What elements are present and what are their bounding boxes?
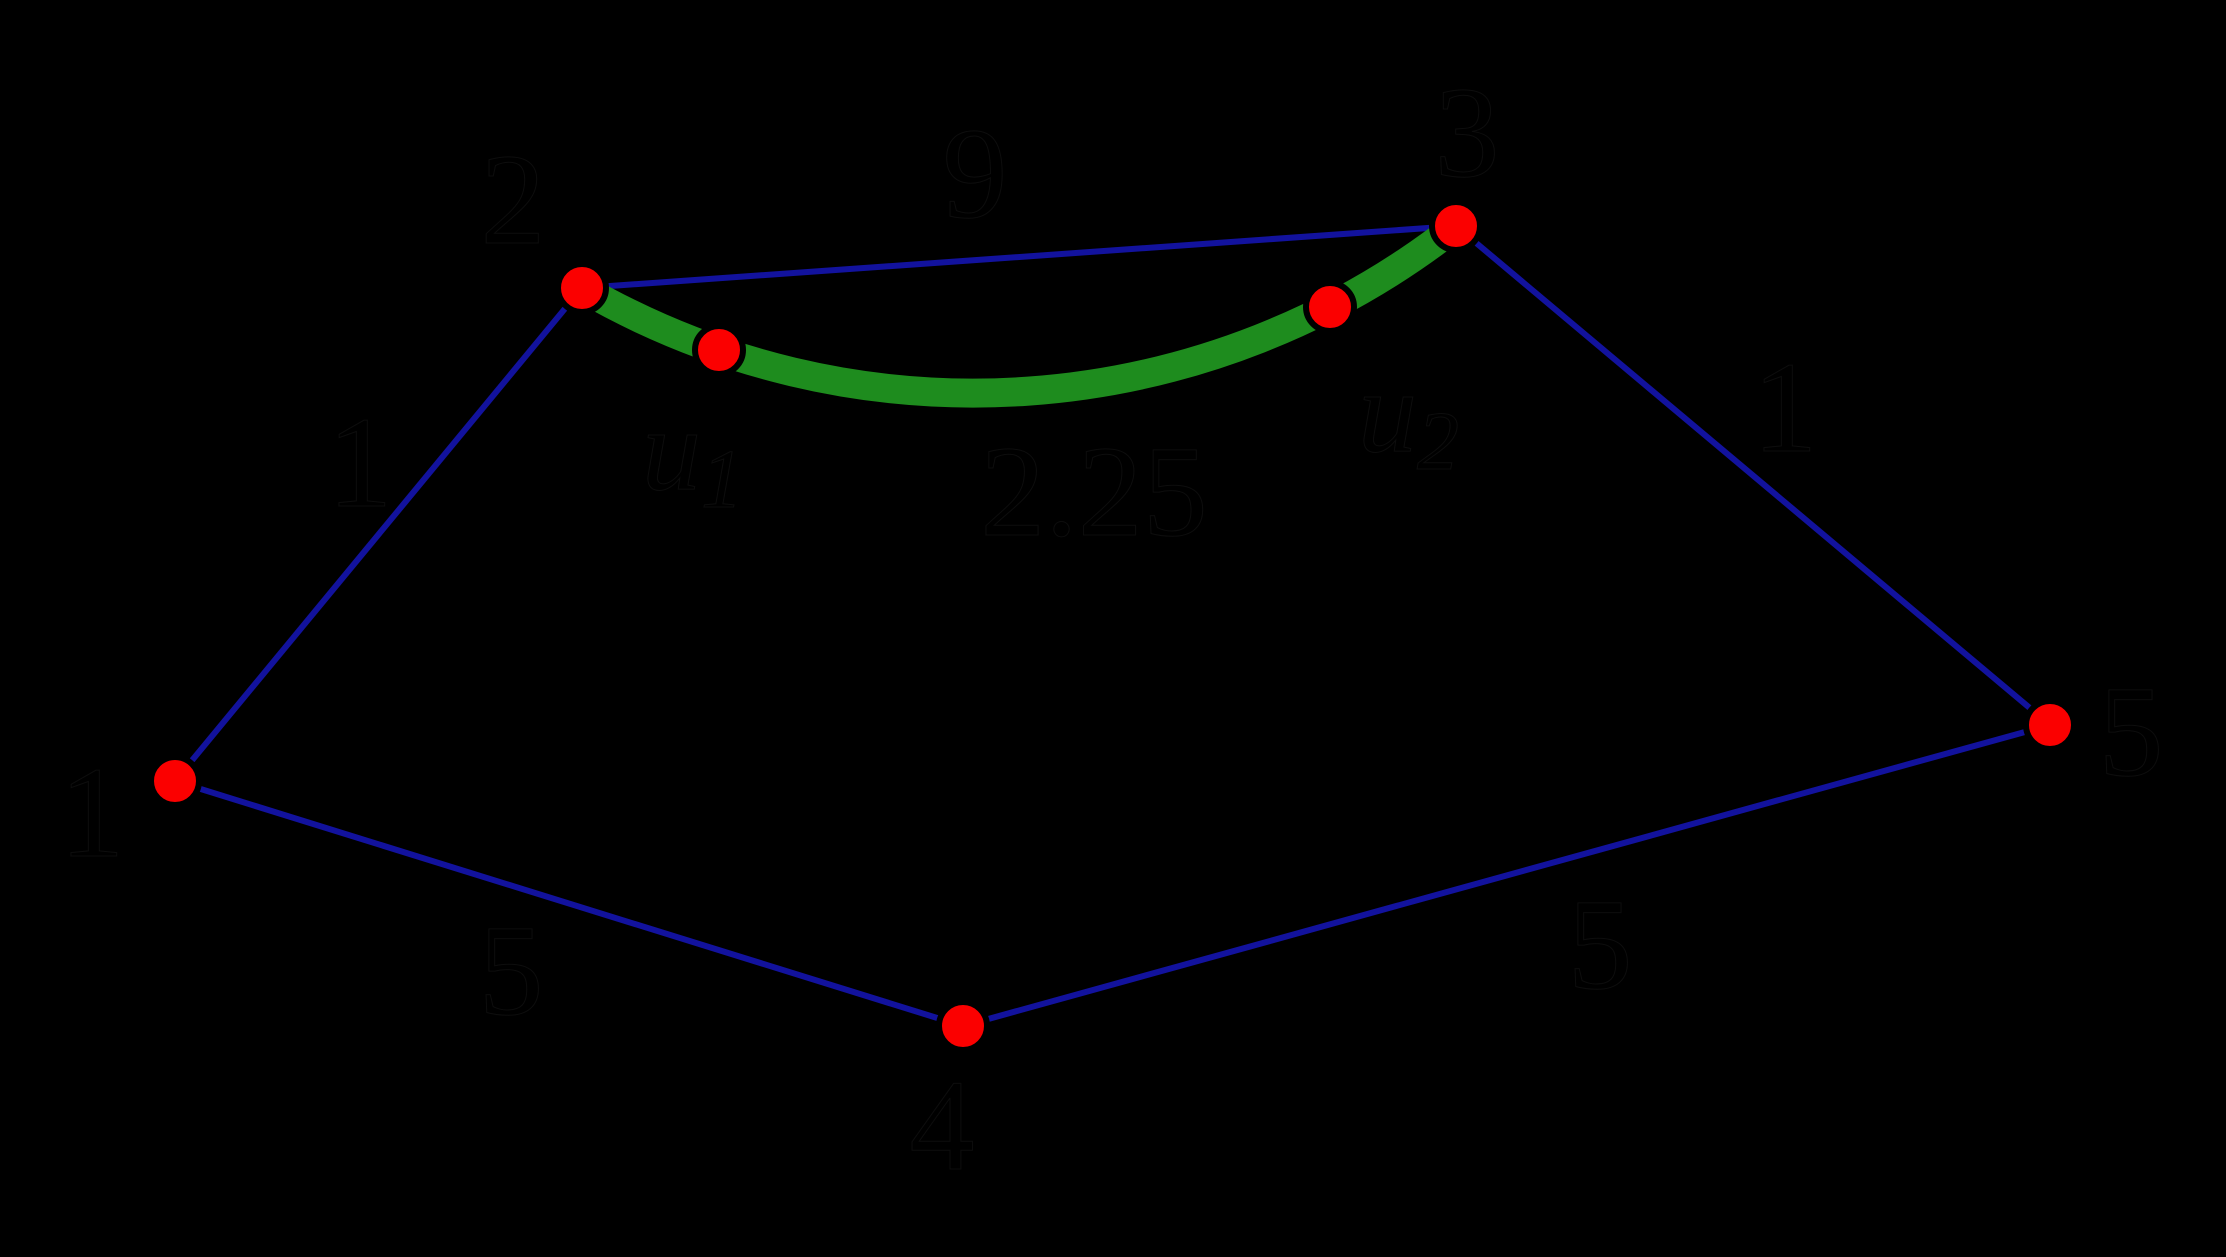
wire: edge node2-node3 [582, 226, 1456, 288]
svg-text:5: 5 [479, 899, 544, 1043]
svg-text:1: 1 [60, 741, 125, 885]
node 4 [939, 1002, 987, 1050]
wire: edge node3-node5 [1456, 226, 2050, 725]
node 5 [2026, 701, 2074, 749]
node u2 [1306, 283, 1354, 331]
node u1 [695, 326, 743, 374]
svg-text:2.25: 2.25 [980, 420, 1208, 564]
svg-text:4: 4 [910, 1054, 975, 1198]
wire: edge node1-node2 [175, 288, 582, 781]
svg-text:3: 3 [1435, 61, 1500, 205]
node 1 [151, 757, 199, 805]
wire: edge node1-node4 [175, 781, 963, 1026]
node 2 [558, 264, 606, 312]
svg-text:1: 1 [1753, 336, 1818, 480]
svg-text:5: 5 [1568, 873, 1633, 1017]
svg-text:5: 5 [2099, 660, 2164, 804]
node 3 [1432, 202, 1480, 250]
wire: green curved path node2-u1-u2-node3 [582, 226, 1456, 393]
wire: edge node4-node5 [963, 725, 2050, 1026]
svg-text:2: 2 [481, 128, 546, 272]
svg-text:1: 1 [328, 391, 393, 535]
svg-text:9: 9 [943, 102, 1008, 246]
